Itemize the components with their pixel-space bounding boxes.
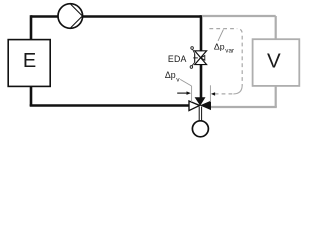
arrowhead: dashed arrow pointing left at valve	[211, 92, 215, 96]
dashed annotation loop: bottom corner arc	[233, 85, 242, 94]
svg-text:EDA: EDA	[168, 54, 187, 64]
wire: right vertical supply drop	[200, 15, 203, 51]
extension line right (valve edge)	[209, 85, 211, 102]
three-way control valve: right triangle	[200, 101, 211, 111]
dashed annotation loop: top corner and right vertical	[237, 29, 242, 86]
consumer V box	[253, 39, 300, 86]
pump circle	[58, 4, 83, 29]
pump chevron	[70, 4, 82, 28]
gray pipe: V box bottom stem	[275, 86, 277, 107]
wire: vertical between EDA valve and control valve	[200, 64, 203, 98]
EDA valve adjuster triangle	[201, 56, 205, 61]
EDA impulse tube top	[193, 49, 195, 53]
arrowhead: solid black arrow	[187, 91, 191, 95]
EDA valve body (hourglass)	[195, 51, 207, 65]
wire: left drop from top wire to E box	[30, 15, 33, 40]
EDA impulse circle top	[191, 47, 194, 50]
arrow: solid black pointing right at valve	[177, 92, 187, 94]
wire: bottom return (black)	[30, 104, 189, 107]
EDA impulse tube bottom	[192, 62, 195, 65]
actuator circle	[192, 121, 208, 137]
svg-text:Δp: Δp	[165, 70, 176, 80]
gray pipe: drop into V box	[275, 16, 277, 39]
boiler E box	[8, 40, 50, 87]
svg-text:var: var	[225, 47, 234, 54]
svg-text:V: V	[267, 49, 281, 72]
extension line left (valve edge)	[191, 86, 193, 102]
dashed annotation bottom run to arrow	[215, 93, 234, 95]
three-way control valve: left triangle (outline)	[189, 101, 200, 111]
actuator stem	[199, 107, 201, 121]
gray pipe: top run to consumer	[202, 15, 276, 17]
leader line from delta p v label	[180, 79, 191, 86]
leader line from delta p var label	[218, 30, 223, 41]
wire: top supply (black)	[31, 15, 201, 18]
svg-text:E: E	[23, 50, 36, 72]
EDA actuator bar	[194, 54, 196, 63]
three-way control valve: top triangle	[195, 97, 206, 106]
gray pipe: bottom return from V to valve	[211, 106, 277, 108]
EDA impulse circle bottom	[190, 66, 193, 69]
dashed annotation path (delta p var loop)	[209, 28, 236, 30]
svg-text:Δp: Δp	[214, 42, 225, 52]
EDA actuator link	[193, 57, 198, 59]
wire: E box bottom stem	[30, 86, 33, 106]
